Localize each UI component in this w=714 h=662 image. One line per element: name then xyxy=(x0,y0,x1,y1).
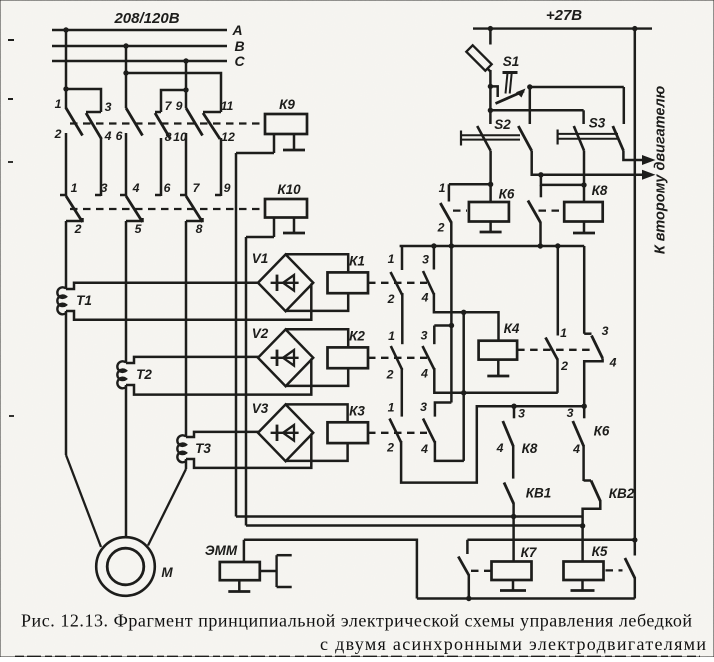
svg-text:208/120В: 208/120В xyxy=(113,10,179,27)
svg-text:1: 1 xyxy=(71,181,78,195)
svg-text:КВ2: КВ2 xyxy=(609,486,635,501)
svg-text:4: 4 xyxy=(420,442,428,456)
svg-text:Т2: Т2 xyxy=(136,367,152,382)
svg-text:3: 3 xyxy=(421,329,428,343)
svg-text:2: 2 xyxy=(560,359,568,373)
svg-text:2: 2 xyxy=(387,292,395,306)
svg-text:Т1: Т1 xyxy=(76,293,92,308)
svg-text:6: 6 xyxy=(164,181,171,195)
svg-text:В: В xyxy=(234,38,244,54)
svg-text:2: 2 xyxy=(386,368,394,382)
svg-text:К2: К2 xyxy=(349,329,365,344)
svg-text:12: 12 xyxy=(221,130,235,144)
svg-text:S2: S2 xyxy=(494,117,511,132)
svg-text:К4: К4 xyxy=(504,321,520,336)
svg-text:V3: V3 xyxy=(252,401,269,416)
svg-text:3: 3 xyxy=(518,407,525,421)
svg-text:ЭММ: ЭММ xyxy=(205,543,238,558)
svg-text:3: 3 xyxy=(602,324,609,338)
svg-text:V1: V1 xyxy=(252,251,269,266)
svg-text:К второму двигателю: К второму двигателю xyxy=(653,85,669,254)
svg-text:1: 1 xyxy=(388,401,395,415)
svg-text:А: А xyxy=(231,22,242,38)
svg-text:С: С xyxy=(234,53,245,69)
svg-text:Рис. 12.13. Фрагмент принципиа: Рис. 12.13. Фрагмент принципиальной элек… xyxy=(21,611,692,631)
svg-text:2: 2 xyxy=(74,222,82,236)
svg-text:1: 1 xyxy=(388,329,395,343)
svg-text:4: 4 xyxy=(421,291,429,305)
svg-text:V2: V2 xyxy=(252,326,269,341)
svg-text:КВ1: КВ1 xyxy=(526,486,552,501)
svg-text:3: 3 xyxy=(105,100,112,114)
svg-text:S1: S1 xyxy=(503,54,520,69)
svg-text:4: 4 xyxy=(132,181,140,195)
svg-text:2: 2 xyxy=(386,441,394,455)
svg-text:6: 6 xyxy=(116,129,123,143)
svg-text:К3: К3 xyxy=(349,404,365,419)
svg-text:1: 1 xyxy=(388,252,395,266)
svg-text:11: 11 xyxy=(221,99,234,113)
svg-text:8: 8 xyxy=(196,222,203,236)
svg-text:8: 8 xyxy=(165,130,172,144)
svg-text:К5: К5 xyxy=(592,544,608,559)
svg-text:4: 4 xyxy=(496,441,504,455)
svg-text:4: 4 xyxy=(420,367,428,381)
svg-text:1: 1 xyxy=(55,97,62,111)
svg-text:3: 3 xyxy=(420,400,427,414)
svg-text:К6: К6 xyxy=(594,424,610,439)
svg-text:2: 2 xyxy=(54,127,62,141)
svg-text:Т3: Т3 xyxy=(195,441,211,456)
svg-text:К9: К9 xyxy=(279,97,295,112)
svg-text:4: 4 xyxy=(572,442,580,456)
svg-text:3: 3 xyxy=(422,253,429,267)
svg-text:2: 2 xyxy=(437,221,445,235)
svg-text:К1: К1 xyxy=(349,254,365,269)
svg-text:1: 1 xyxy=(439,181,446,195)
svg-text:S3: S3 xyxy=(589,116,606,131)
svg-text:+27В: +27В xyxy=(546,7,582,24)
svg-text:7: 7 xyxy=(193,181,201,195)
svg-text:К8: К8 xyxy=(592,183,608,198)
svg-text:9: 9 xyxy=(224,181,231,195)
svg-text:4: 4 xyxy=(609,356,617,370)
svg-text:7: 7 xyxy=(165,99,173,113)
svg-text:3: 3 xyxy=(567,406,574,420)
svg-text:1: 1 xyxy=(560,326,567,340)
svg-text:5: 5 xyxy=(135,222,142,236)
svg-text:К10: К10 xyxy=(277,182,301,197)
svg-text:3: 3 xyxy=(101,181,108,195)
svg-text:К6: К6 xyxy=(499,187,515,202)
svg-text:с двумя асинхронными электродв: с двумя асинхронными электродвигателями xyxy=(320,634,706,654)
svg-text:4: 4 xyxy=(104,129,112,143)
svg-text:К8: К8 xyxy=(522,441,538,456)
svg-text:10: 10 xyxy=(173,130,187,144)
svg-text:М: М xyxy=(161,565,173,580)
svg-text:9: 9 xyxy=(176,99,183,113)
svg-text:К7: К7 xyxy=(521,545,538,560)
